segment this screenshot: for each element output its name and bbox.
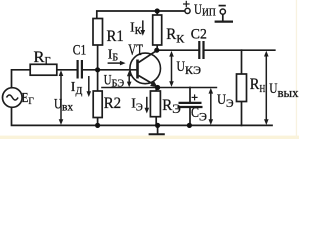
- capacitor C2: [199, 41, 203, 59]
- AC source sine symbol: [7, 95, 19, 100]
- wire RK stub top: [156, 11, 158, 15]
- wire collector to C2: [157, 49, 198, 51]
- transistor emitter arrowhead: [150, 81, 158, 88]
- wire RG to C1: [57, 69, 77, 71]
- node collector: [154, 48, 159, 53]
- wire C1 to base: [83, 69, 137, 71]
- terminal - post: [215, 14, 233, 21]
- wire CE branch top: [189, 88, 191, 103]
- node top rail RK: [155, 8, 160, 13]
- arrow I_B right: [108, 62, 122, 64]
- svg-text:R2: R2: [104, 95, 121, 112]
- transistor VT circle: [130, 53, 161, 84]
- minus sign of UIP: [219, 5, 226, 7]
- arrow I_D down: [88, 76, 90, 93]
- transistor base bar: [136, 60, 139, 79]
- wire RE to bottom rail: [155, 117, 157, 126]
- arrow I_E down: [146, 97, 148, 110]
- node CE bottom: [187, 123, 192, 128]
- arrow U_BE double: [128, 74, 130, 84]
- svg-text:VT: VT: [128, 42, 143, 59]
- wire RN to bottom rail: [241, 102, 243, 126]
- transistor collector lead: [139, 50, 157, 62]
- node base: [95, 67, 100, 72]
- terminal - circle: [220, 9, 225, 14]
- svg-text:С1: С1: [73, 43, 86, 59]
- plus sign of UIP: [183, 1, 190, 7]
- wire RN stub top: [241, 50, 243, 74]
- terminal + circle: [185, 8, 190, 13]
- arrow U_E double: [210, 92, 212, 122]
- scan edge band right: [296, 0, 297, 139]
- arrows: [59, 20, 269, 125]
- resistor R1: [93, 19, 103, 46]
- arrow I_K down: [142, 20, 144, 31]
- AC source EG circle: [3, 88, 23, 108]
- arrow U_KE double: [171, 55, 173, 84]
- wire R1 to base node: [97, 45, 99, 70]
- ground symbol: [149, 125, 165, 134]
- wire top rail: [97, 11, 185, 19]
- transistor emitter lead: [139, 76, 156, 86]
- arrow U_vyx double: [265, 55, 267, 122]
- junction dots: [95, 8, 192, 128]
- wire CE branch bottom: [189, 108, 191, 126]
- wire C2 to output end: [205, 49, 275, 51]
- svg-text:С2: С2: [191, 27, 207, 43]
- arrow U_vx double: [60, 75, 62, 121]
- CE plus sign: [192, 94, 198, 100]
- capacitor CE polarized: [178, 103, 203, 107]
- wire base node to R2: [97, 70, 99, 91]
- node emitter: [155, 85, 160, 90]
- scan edge band bottom: [0, 136, 299, 139]
- resistor RK: [153, 15, 162, 45]
- wire RK to collector node: [156, 45, 158, 50]
- node R2 bottom: [95, 123, 100, 128]
- resistor RG: [30, 64, 57, 75]
- resistor RE: [150, 91, 160, 117]
- wire emitter node to RE: [155, 88, 157, 92]
- wire left vertical bottom: [12, 107, 273, 125]
- wire emitter level line: [102, 87, 216, 89]
- wire R2 to bottom rail: [97, 118, 99, 126]
- wire input top y=69.8: [12, 70, 31, 88]
- resistor R2: [93, 91, 102, 118]
- svg-text:R1: R1: [107, 28, 124, 45]
- capacitor C1: [78, 60, 82, 79]
- node ground: [155, 123, 160, 128]
- resistor RN: [237, 74, 247, 102]
